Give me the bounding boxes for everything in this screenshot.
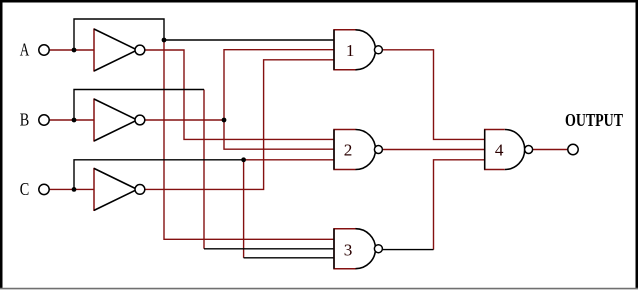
svg-text:C: C bbox=[20, 179, 30, 199]
svg-text:B: B bbox=[20, 110, 30, 130]
svg-text:A: A bbox=[20, 39, 30, 59]
svg-text:1: 1 bbox=[346, 41, 355, 60]
svg-text:3: 3 bbox=[344, 240, 353, 259]
svg-text:OUTPUT: OUTPUT bbox=[565, 110, 623, 130]
svg-text:2: 2 bbox=[344, 140, 353, 159]
svg-text:4: 4 bbox=[495, 140, 504, 159]
